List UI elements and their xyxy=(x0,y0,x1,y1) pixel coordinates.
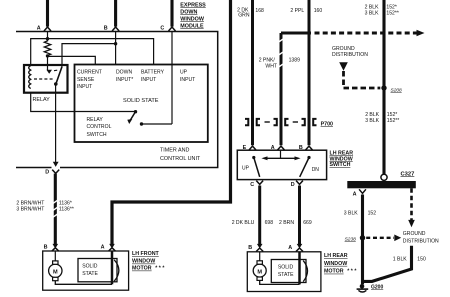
wire branch A-junction to battery input xyxy=(48,39,154,65)
wire current sense tap to solid state xyxy=(48,56,96,64)
terminal D arrow inside box xyxy=(53,162,59,167)
svg-text:A: A xyxy=(101,245,105,251)
svg-text:D: D xyxy=(291,182,295,188)
connector P700 bracket pair on 160 wire xyxy=(302,119,305,125)
svg-text:2 BRN/WHT: 2 BRN/WHT xyxy=(16,200,44,206)
svg-text:RELAY: RELAY xyxy=(33,97,51,103)
wire rear switch A stub xyxy=(280,150,282,158)
wire from terminal A to junction xyxy=(47,32,49,40)
svg-text:EXPRESS: EXPRESS xyxy=(180,2,206,8)
svg-text:DOWN: DOWN xyxy=(116,69,132,75)
wire motor M to internal bus xyxy=(55,281,112,285)
svg-text:CONTROL: CONTROL xyxy=(87,124,112,130)
svg-text:S238: S238 xyxy=(345,236,357,242)
svg-text:A: A xyxy=(353,192,357,198)
wire 168 DK GRN to rear switch E xyxy=(251,0,254,145)
rear switch terminal A chevron xyxy=(278,146,285,150)
node junction dot on B wire xyxy=(114,42,117,45)
svg-text:1136**: 1136** xyxy=(59,207,74,213)
ground G200 symbol xyxy=(360,284,365,289)
svg-text:C327: C327 xyxy=(401,171,415,177)
wire unlabeled feed to front motor terminal A xyxy=(112,0,231,246)
box solid state unit inside U1 xyxy=(75,65,208,143)
relay fixed contact arrow xyxy=(46,70,52,74)
relay coil xyxy=(29,66,31,89)
arrowhead to ground distribution upper xyxy=(339,62,348,71)
label 2 PPL 160 xyxy=(290,8,322,14)
svg-text:G200: G200 xyxy=(371,285,383,291)
svg-text:CURRENT: CURRENT xyxy=(77,69,102,75)
svg-text:2 PPL: 2 PPL xyxy=(290,8,304,14)
wire relay output to terminal D xyxy=(55,84,57,163)
svg-text:SENSE: SENSE xyxy=(77,77,95,83)
svg-text:3 BLK: 3 BLK xyxy=(365,11,379,17)
svg-text:160: 160 xyxy=(314,8,323,14)
svg-text:698: 698 xyxy=(265,220,274,226)
label LH FRONT WINDOW MOTOR xyxy=(132,251,165,271)
label 2 BLK 152 upper xyxy=(365,4,399,16)
svg-text:1 BLK: 1 BLK xyxy=(393,257,407,263)
wire from terminal C up input to relay control switch xyxy=(171,32,173,125)
node junction dot below resistor xyxy=(46,54,49,57)
connector C327 body bar xyxy=(347,181,416,188)
label 2 DK GRN 168 xyxy=(237,7,264,18)
rear switch rocker linkage xyxy=(264,157,298,159)
svg-text:SOLID STATE: SOLID STATE xyxy=(123,98,159,104)
svg-text:B: B xyxy=(44,245,48,251)
node splice S208 xyxy=(381,85,386,90)
label 2 PNK/WHT 1389 xyxy=(259,58,300,70)
wire 150 BLK branch to ground xyxy=(363,246,412,282)
label 1 BLK 150 xyxy=(393,257,426,263)
rear switch up arm xyxy=(254,158,260,177)
svg-text:2 BLK: 2 BLK xyxy=(365,112,379,118)
label RELAY CONTROL SWITCH xyxy=(87,117,112,138)
rear switch terminal C chevron xyxy=(256,181,263,185)
label BATTERY INPUT xyxy=(141,69,165,83)
label 2 BRN/WHT 1136 xyxy=(16,200,73,212)
connector C327 terminal ring xyxy=(381,174,387,180)
wire control switch to up input line xyxy=(142,123,173,125)
wire C feed xyxy=(170,0,173,27)
svg-text:* * *: * * * xyxy=(154,266,166,272)
svg-text:3 BLK: 3 BLK xyxy=(365,118,379,124)
svg-text:WHT: WHT xyxy=(265,63,277,69)
svg-text:LH FRONT: LH FRONT xyxy=(132,251,160,257)
svg-text:152**: 152** xyxy=(386,11,398,17)
terminal B of timer and control unit xyxy=(112,27,119,31)
svg-text:INPUT: INPUT xyxy=(141,77,156,83)
svg-text:1389: 1389 xyxy=(289,58,300,64)
svg-text:A: A xyxy=(37,25,41,31)
svg-text:SOLID: SOLID xyxy=(278,264,294,270)
rear motor terminal B arrow xyxy=(257,244,263,249)
label EXPRESS DOWN WINDOW MODULE xyxy=(180,2,206,29)
rear motor terminal B chevron xyxy=(256,248,263,252)
wire dashed reference from C327 to ground distribution xyxy=(410,188,413,220)
svg-text:UP: UP xyxy=(180,69,188,75)
connector P700 tie dash xyxy=(293,121,298,123)
svg-text:SWITCH: SWITCH xyxy=(330,162,351,168)
wire relay coil return to control switch xyxy=(31,93,136,112)
C327 terminal A chevron xyxy=(359,189,366,193)
wire dashed reference from S238 xyxy=(366,237,394,239)
svg-text:GRN: GRN xyxy=(238,13,250,19)
wire front motor A terminal internal xyxy=(111,251,114,284)
svg-text:SWITCH: SWITCH xyxy=(87,132,107,138)
node relay control switch lower contact xyxy=(140,122,143,125)
arrowhead down to ground distribution text xyxy=(408,220,415,227)
svg-text:INPUT: INPUT xyxy=(77,84,92,90)
svg-text:DISTRIBUTION: DISTRIBUTION xyxy=(403,238,439,244)
terminal C of timer and control unit xyxy=(169,27,176,31)
svg-text:RELAY: RELAY xyxy=(87,117,104,123)
wire 160 PPL to rear switch B xyxy=(308,0,311,145)
wire 152 BLK from C327 to ground G200 xyxy=(361,195,364,285)
label GROUND DISTRIBUTION lower xyxy=(403,231,439,244)
wire branch B-junction to relay armature xyxy=(62,44,116,67)
node relay control switch upper contact xyxy=(134,110,137,113)
wire splice notches on 1136 wire xyxy=(53,200,58,217)
box solid state rear motor xyxy=(271,260,306,283)
svg-text:152**: 152** xyxy=(387,118,399,124)
svg-text:DN: DN xyxy=(312,167,320,173)
relay mechanical link dashed xyxy=(34,78,54,80)
svg-text:M: M xyxy=(53,270,58,276)
solid state front arc xyxy=(114,260,119,281)
relay contact gap mark xyxy=(54,69,57,72)
wire 669 BRN switch D to rear motor A xyxy=(298,186,301,247)
svg-text:WINDOW: WINDOW xyxy=(132,259,155,265)
svg-text:WINDOW: WINDOW xyxy=(324,261,347,267)
svg-text:152*: 152* xyxy=(387,112,397,118)
svg-text:152: 152 xyxy=(368,210,377,216)
wire rear motor A terminal internal xyxy=(298,252,301,285)
wire from terminal B to down input xyxy=(115,32,117,65)
box U1 timer and control unit xyxy=(16,32,218,168)
svg-text:M: M xyxy=(257,269,262,275)
svg-text:INPUT: INPUT xyxy=(180,77,195,83)
rear switch terminal B chevron xyxy=(306,146,313,150)
svg-text:D: D xyxy=(45,170,49,176)
wire B feed xyxy=(114,0,117,27)
svg-text:2 BLK: 2 BLK xyxy=(365,4,379,10)
svg-text:152*: 152* xyxy=(386,4,396,10)
wire resistor to relay fixed contact xyxy=(47,56,49,70)
motor M2 rear circle xyxy=(253,264,266,277)
svg-text:* * *: * * * xyxy=(346,269,358,275)
label 2 BRN 669 xyxy=(279,220,312,226)
resistor current sense shunt xyxy=(44,39,50,56)
box relay K1 xyxy=(24,65,68,93)
front motor terminal A arrow xyxy=(109,244,115,249)
arrowhead ground distribution reference xyxy=(417,30,425,37)
svg-text:MOTOR: MOTOR xyxy=(324,269,344,275)
wire 698 DK BLU switch C to rear motor B xyxy=(258,186,261,247)
motor M1 brush caps xyxy=(53,261,58,264)
rear motor terminal A arrow xyxy=(297,244,303,249)
svg-text:INPUT*: INPUT* xyxy=(116,77,133,83)
label DOWN INPUT xyxy=(116,69,133,83)
svg-text:1136*: 1136* xyxy=(59,200,72,206)
wire A feed from express down window module xyxy=(46,0,49,27)
svg-text:WINDOW: WINDOW xyxy=(180,16,205,22)
connector P700 tie dash xyxy=(265,121,270,123)
wire 1136 BRN/WHT from terminal D to front motor xyxy=(54,174,57,247)
box LH rear window motor xyxy=(247,252,321,292)
svg-text:CONTROL UNIT: CONTROL UNIT xyxy=(160,156,201,162)
node splice S238 xyxy=(360,235,365,240)
node relay armature pivot xyxy=(54,82,58,86)
wire splice notches on 1389 wire xyxy=(279,39,284,67)
svg-text:MOTOR: MOTOR xyxy=(132,266,152,272)
svg-text:TIMER AND: TIMER AND xyxy=(160,148,189,154)
node junction dot on A wire xyxy=(46,37,49,40)
rear switch down arm xyxy=(300,158,309,177)
node rear switch down contact xyxy=(307,156,310,159)
rear switch terminal D chevron xyxy=(296,181,303,185)
svg-text:669: 669 xyxy=(303,220,312,226)
rocker linkage right arrowhead xyxy=(295,156,301,160)
label 3 BLK 152 xyxy=(344,210,376,216)
label LH REAR WINDOW SWITCH xyxy=(330,150,354,168)
node rear switch up contact xyxy=(252,156,255,159)
svg-text:DISTRIBUTION: DISTRIBUTION xyxy=(332,52,368,58)
svg-text:2 DK BLU: 2 DK BLU xyxy=(232,220,255,226)
box solid state front motor xyxy=(78,259,117,282)
svg-text:150: 150 xyxy=(417,257,426,263)
relay control switch arm xyxy=(130,112,136,121)
svg-text:C: C xyxy=(160,26,164,32)
svg-text:DOWN: DOWN xyxy=(180,9,197,15)
svg-text:B: B xyxy=(104,25,108,31)
wire rear motor B terminal to motor M xyxy=(259,252,261,261)
svg-text:STATE: STATE xyxy=(82,271,98,277)
wire branch A-junction to relay coil feed xyxy=(31,39,48,66)
terminal A of timer and control unit xyxy=(44,27,51,31)
wire 1389 PNK/WHT to rear switch A xyxy=(280,33,283,145)
svg-text:LH REAR: LH REAR xyxy=(324,253,348,259)
relay armature arm xyxy=(56,67,62,84)
svg-text:C: C xyxy=(250,182,254,188)
relay control switch arm arrowhead xyxy=(127,119,132,124)
connector P700 bracket pair on 168 wire xyxy=(245,119,248,125)
wire ground distribution reference horizontal xyxy=(281,32,311,35)
label SOLID STATE rear xyxy=(278,264,294,278)
front motor terminal B chevron xyxy=(52,248,59,252)
svg-text:S208: S208 xyxy=(391,87,403,93)
svg-text:SOLID: SOLID xyxy=(82,264,98,270)
svg-text:168: 168 xyxy=(255,8,264,14)
solid state rear arc xyxy=(303,261,307,282)
svg-text:UP: UP xyxy=(242,166,250,172)
rear switch terminal E chevron xyxy=(249,146,256,150)
box S1 LH rear window switch xyxy=(237,150,326,179)
wire motor B terminal to motor M xyxy=(54,251,56,261)
front motor terminal A chevron xyxy=(109,248,116,252)
svg-text:GROUND: GROUND xyxy=(403,231,426,237)
front motor terminal B arrow xyxy=(53,244,59,249)
label LH REAR WINDOW MOTOR xyxy=(324,253,357,275)
svg-text:GROUND: GROUND xyxy=(332,46,355,52)
svg-text:STATE: STATE xyxy=(278,272,294,278)
rocker linkage left arrowhead xyxy=(261,156,267,160)
svg-text:2 BRN: 2 BRN xyxy=(279,220,294,226)
wire dashed reference to splice S208 xyxy=(344,71,381,88)
label CURRENT SENSE INPUT xyxy=(77,69,102,90)
box LH front window motor xyxy=(43,251,129,290)
label GROUND DISTRIBUTION upper xyxy=(332,46,368,58)
wire 152 BLK main ground feed xyxy=(382,0,385,174)
svg-text:3 BLK: 3 BLK xyxy=(344,210,358,216)
label SOLID STATE front xyxy=(82,264,98,278)
svg-text:B: B xyxy=(248,245,252,251)
label UP INPUT xyxy=(180,69,195,83)
motor M2 brush caps xyxy=(257,261,262,264)
terminal D chevron xyxy=(52,170,59,174)
label 2 BLK 152 lower xyxy=(365,112,399,124)
arrowhead to ground distribution lower xyxy=(394,235,401,242)
connector P700 bracket pair on 1389 wire xyxy=(274,119,277,125)
svg-text:P700: P700 xyxy=(321,121,333,127)
svg-text:BATTERY: BATTERY xyxy=(141,69,165,75)
label 2 DK BLU 698 xyxy=(232,220,274,226)
svg-text:A: A xyxy=(288,245,292,251)
svg-text:MODULE: MODULE xyxy=(180,23,204,29)
rear motor terminal A chevron xyxy=(296,248,303,252)
svg-text:LH REAR: LH REAR xyxy=(330,150,354,156)
wire rear motor M to internal bus xyxy=(260,280,300,284)
motor M1 front circle xyxy=(49,264,62,277)
svg-text:3 BRN/WHT: 3 BRN/WHT xyxy=(16,207,44,213)
label TIMER AND CONTROL UNIT xyxy=(160,148,201,163)
